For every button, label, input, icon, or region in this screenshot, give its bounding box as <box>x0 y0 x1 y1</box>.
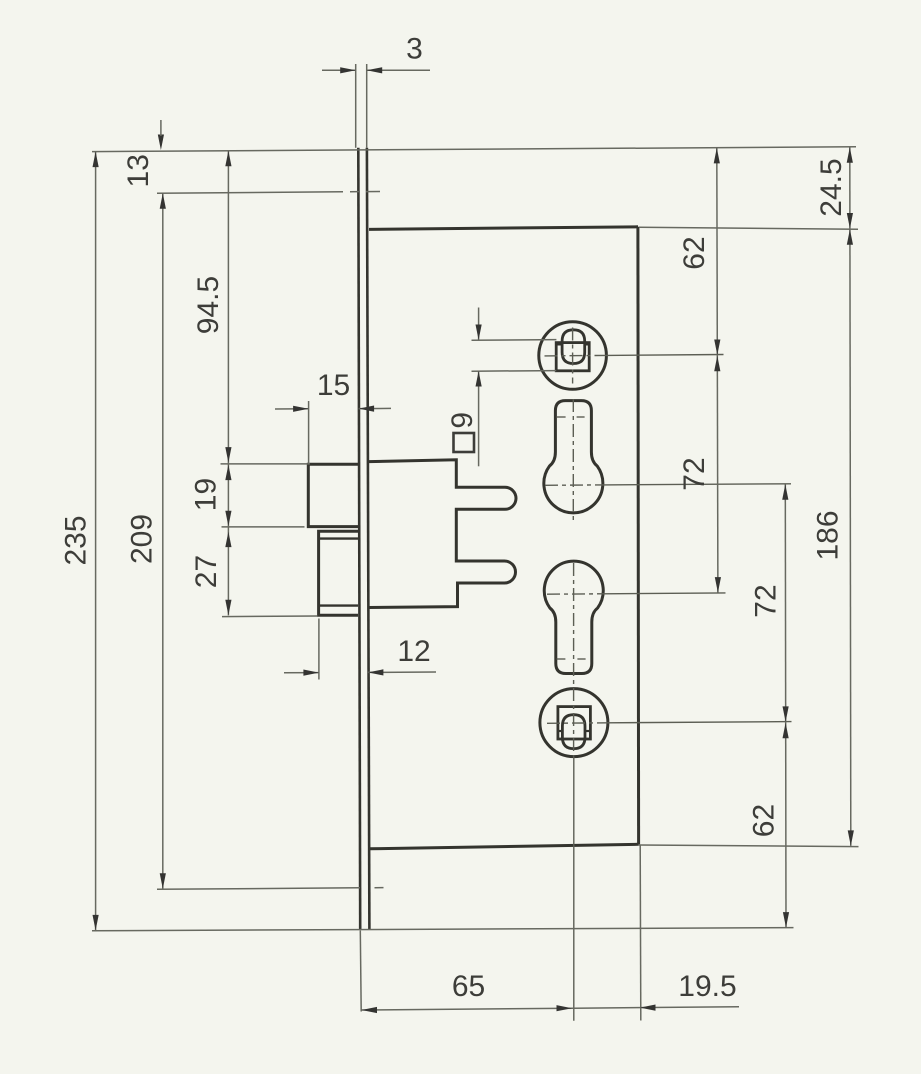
dim 24.5 label <box>815 158 848 216</box>
bottom follower flange ticks <box>558 730 590 732</box>
dim 15 extension line <box>308 401 310 464</box>
dim 27 label <box>190 555 223 588</box>
dim 62 top label <box>678 236 711 269</box>
top reference line <box>92 147 856 152</box>
svg-text:19: 19 <box>190 478 223 511</box>
dim 19 arrows <box>225 465 231 527</box>
dim 209 line <box>162 193 164 889</box>
deadbolt head <box>319 531 358 615</box>
deadbolt bevel top <box>319 537 358 539</box>
svg-text:27: 27 <box>190 555 223 588</box>
dim 3 label <box>406 33 423 66</box>
dim 19.5 line <box>574 1007 740 1008</box>
centerline horizontal upper cylinder <box>545 484 791 486</box>
dim 235 line <box>95 152 97 931</box>
case bottom extension line <box>639 845 859 847</box>
dim 62 top arrows <box>714 148 721 355</box>
dim 72 upper label <box>678 457 711 490</box>
dim 9 label <box>446 412 479 429</box>
svg-text:3: 3 <box>406 33 423 66</box>
dim 12 extension line <box>318 619 320 680</box>
centerline horizontal bottom follower <box>547 722 792 724</box>
top follower circle <box>539 322 607 390</box>
dim 19.5 arrows <box>640 1005 656 1011</box>
latch top extension line <box>221 463 311 465</box>
svg-text:62: 62 <box>678 236 711 269</box>
bolt tail block with prongs <box>369 460 516 608</box>
deadbolt bottom extension line <box>222 615 318 618</box>
centerline horizontal top follower <box>545 355 724 356</box>
bottom follower square <box>558 707 591 739</box>
svg-text:72: 72 <box>678 457 711 490</box>
svg-text:94.5: 94.5 <box>192 276 225 334</box>
dim 94.5 label <box>192 276 225 334</box>
lock case top edge <box>369 227 638 230</box>
dim 186 arrows <box>847 229 854 846</box>
dim 62 bottom arrows <box>783 723 790 928</box>
latch bottom extension line <box>222 526 305 528</box>
dim 15 arrows <box>293 406 374 412</box>
dim 186 label <box>812 510 845 560</box>
lower cylinder hole <box>544 561 603 673</box>
svg-text:9: 9 <box>446 412 479 429</box>
dim 15 line <box>275 407 391 410</box>
dim 24.5 186 line <box>850 147 851 846</box>
top follower spindle profile <box>562 330 585 364</box>
latch bolt head <box>308 464 358 526</box>
centerline horizontal lower cylinder <box>547 593 726 594</box>
faceplate extension line bottom <box>359 931 362 1012</box>
upper cylinder hole <box>544 401 603 513</box>
lower screw reference line <box>157 888 384 890</box>
dim 19 line <box>227 463 229 526</box>
dim 65 line <box>362 1008 574 1010</box>
dim 209 arrows <box>160 193 166 889</box>
svg-text:235: 235 <box>60 515 93 565</box>
dim 65 arrows <box>362 1005 573 1013</box>
dim 72 62 line right outer <box>784 484 787 927</box>
deadbolt bevel bottom <box>319 604 358 606</box>
dim 62 72 line right inner <box>717 148 718 593</box>
dim 235 arrows <box>93 152 99 931</box>
dim 24.5 arrows <box>847 147 853 228</box>
dim 12 line <box>284 671 436 674</box>
dim 12 label <box>397 635 430 668</box>
dim 3 line <box>322 69 430 71</box>
dim 9 square symbol <box>454 433 475 452</box>
top follower square <box>556 343 589 371</box>
dim 15 label <box>317 369 350 402</box>
dim 235 label <box>60 515 93 565</box>
centerline vertical top follower <box>572 328 574 384</box>
svg-text:12: 12 <box>397 635 430 668</box>
svg-text:13: 13 <box>122 154 155 187</box>
svg-text:72: 72 <box>750 584 783 617</box>
upper cylinder stem ticks <box>556 416 584 418</box>
svg-text:62: 62 <box>748 804 781 837</box>
dim 12 arrows <box>303 669 383 675</box>
lower cylinder stem ticks <box>557 658 586 660</box>
bottom follower circle <box>540 689 608 757</box>
dim 9 arrows <box>476 325 482 387</box>
centerline vertical lower cylinder and follower <box>573 563 575 757</box>
dim 13 arrows <box>158 120 164 150</box>
bottom reference line <box>92 928 794 931</box>
svg-text:209: 209 <box>126 514 159 564</box>
centerline extension to 65 dim <box>573 757 575 1021</box>
lock case bottom edge <box>369 844 639 849</box>
dim 3 arrows <box>340 67 382 73</box>
dim 94.5 line <box>227 151 229 464</box>
faceplate front plate left edge <box>358 148 360 930</box>
dim 19.5 label <box>678 970 736 1003</box>
dim 9 extension lines <box>472 340 557 372</box>
dim 72 lower label <box>750 584 783 617</box>
top follower flange ticks <box>556 343 589 345</box>
dim 27 line <box>227 526 229 615</box>
dim 209 label <box>126 514 159 564</box>
dim 19 label <box>190 478 223 511</box>
dim 27 arrows <box>225 532 231 616</box>
case top extension line <box>639 227 858 229</box>
svg-text:65: 65 <box>452 970 485 1003</box>
case right extension line bottom <box>639 845 642 1021</box>
svg-text:186: 186 <box>812 510 845 560</box>
bottom follower spindle profile <box>562 715 585 749</box>
dim 72 upper arrows <box>714 356 721 593</box>
svg-text:15: 15 <box>317 369 350 402</box>
dim 72 lower arrows <box>782 484 789 722</box>
dim 62 bottom label <box>748 804 781 837</box>
lock case right edge <box>636 227 640 845</box>
dim 94.5 arrows <box>225 151 231 463</box>
upper screw reference line <box>157 192 380 194</box>
dim 65 label <box>452 970 485 1003</box>
centerline vertical upper cylinder <box>572 399 574 520</box>
dim 9 line <box>478 308 480 467</box>
dim 13 label <box>122 154 155 187</box>
svg-text:19.5: 19.5 <box>678 970 736 1003</box>
faceplate front plate right edge <box>367 148 370 930</box>
svg-text:24.5: 24.5 <box>815 158 848 216</box>
dim 3 extension lines <box>356 64 367 148</box>
